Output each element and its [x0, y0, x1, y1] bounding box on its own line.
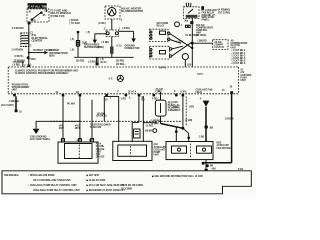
pin 30 connector (black) — [28, 22, 31, 25]
svg-text:(.5 BK): (.5 BK) — [102, 42, 110, 44]
label power distribution box — [49, 48, 68, 57]
svg-text:(.5 BK): (.5 BK) — [88, 61, 96, 63]
svg-text:UNIT: UNIT — [12, 90, 18, 92]
boundary stub line — [185, 96, 187, 126]
splice circle — [182, 54, 188, 68]
svg-text:8 1B: 8 1B — [238, 169, 243, 171]
label M22 fan motor — [217, 143, 231, 150]
svg-text:S202: S202 — [30, 59, 36, 61]
label A31 right of box2 — [154, 143, 167, 156]
wire tick boxes above box1 — [62, 139, 94, 142]
svg-text:1 BN: 1 BN — [189, 107, 195, 109]
compressor box — [213, 40, 228, 50]
connector box B (dashed) — [150, 46, 172, 59]
blower resistor — [155, 100, 166, 116]
svg-text:(1 RD): (1 RD) — [97, 47, 104, 49]
svg-text:A31: A31 — [154, 143, 159, 146]
diagonal wires — [170, 34, 194, 56]
coolant fan feed arrow — [196, 89, 214, 142]
svg-text:PANEL: PANEL — [202, 18, 210, 21]
wire down from connector — [97, 37, 123, 58]
svg-text:BLOWER MOTOR: BLOWER MOTOR — [121, 9, 143, 13]
svg-text:(A/C CONT): (A/C CONT) — [1, 104, 14, 107]
svg-text:○ SPACE BELOW MARK: ○ SPACE BELOW MARK — [28, 174, 55, 177]
svg-text:A/C: A/C — [240, 71, 244, 74]
svg-text:COOLANT FAN: COOLANT FAN — [196, 89, 213, 92]
svg-text:GAUGE: GAUGE — [96, 156, 105, 159]
wire module to box1 (x92) — [91, 100, 93, 142]
svg-text:RD M BK OR CONN: RD M BK OR CONN — [121, 185, 143, 187]
svg-text:AVAILABLE PUMP RELAY CONTROL U: AVAILABLE PUMP RELAY CONTROL UNIT — [33, 189, 80, 192]
branch wire to right with arrow — [29, 50, 53, 54]
svg-text:CLIMATE CONTROL PUSHBUTTON PRO: CLIMATE CONTROL PUSHBUTTON PROGRAMMER UN… — [15, 70, 79, 73]
wire module to box2 (x143.3) — [143, 96, 157, 141]
terminal square — [70, 19, 81, 33]
svg-text:▪ 1 CKT BK-4: ▪ 1 CKT BK-4 — [231, 52, 246, 55]
svg-text:▶ M 9.2 AIR SHUT AIDE VIEW CKT: ▶ M 9.2 AIR SHUT AIDE VIEW CKT — [86, 184, 126, 187]
label ground connection — [125, 46, 140, 51]
label right of box — [231, 39, 248, 49]
wire module to resistor (x160.5) — [160, 92, 162, 100]
svg-text:S 2.5: S 2.5 — [116, 46, 122, 48]
module interior labels — [15, 70, 79, 76]
bus wire — [74, 57, 133, 66]
svg-text:(.5): (.5) — [71, 49, 75, 51]
labels above box1 — [59, 125, 65, 131]
relay K1 (dashed) — [183, 7, 199, 19]
branch to compressor box — [191, 41, 213, 45]
svg-text:MOT: MOT — [75, 128, 81, 130]
svg-text:(TO S RD): (TO S RD) — [218, 11, 230, 15]
box2 aux pump (double box) — [113, 141, 152, 160]
svg-text:○ AVAILABLE PUMP RELAY CONTROL: ○ AVAILABLE PUMP RELAY CONTROL UNIT — [28, 184, 77, 187]
splice S300 — [145, 129, 157, 133]
svg-text:(30 RD): (30 RD) — [116, 60, 124, 62]
A/C control module (large dashed box) — [8, 67, 238, 94]
svg-text:1 BK: 1 BK — [199, 136, 205, 138]
pin C1 — [25, 32, 34, 47]
svg-text:VAC: VAC — [75, 125, 80, 128]
dashed boundary line — [50, 120, 182, 122]
label A1 control unit (right of corner) — [240, 69, 252, 82]
label F1 fuse and relay module — [51, 9, 72, 18]
svg-text:PROGRAMMER: PROGRAMMER — [12, 86, 30, 89]
legend col1 — [28, 174, 80, 192]
svg-text:(.5 BK): (.5 BK) — [98, 23, 106, 25]
circuit list — [231, 50, 246, 65]
label TO BLOWER — [176, 35, 200, 44]
svg-text:REFERENCE: REFERENCE — [4, 175, 19, 177]
legend title — [4, 175, 19, 177]
svg-text:▶ DIAGRAMS AT M INT CONN CKT: ▶ DIAGRAMS AT M INT CONN CKT — [86, 189, 126, 192]
svg-text:MOT: MOT — [59, 128, 65, 130]
relay pin ticks — [186, 3, 204, 10]
svg-text:(.5): (.5) — [71, 39, 75, 41]
svg-text:(.5): (.5) — [87, 32, 91, 34]
svg-text:PU WH: PU WH — [67, 103, 75, 105]
svg-text:(30 BK): (30 BK) — [145, 131, 153, 133]
legend box — [2, 171, 251, 194]
svg-text:(LT SIDE): (LT SIDE) — [196, 35, 207, 37]
label N19 control unit — [196, 24, 213, 37]
module top pin black — [27, 65, 30, 68]
wire module down (x182.9) — [181, 96, 194, 141]
svg-text:(30 RD): (30 RD) — [76, 60, 84, 62]
wire label 2.5 RD/WH — [12, 28, 24, 30]
svg-text:S PU: S PU — [197, 74, 203, 76]
svg-text:( TO RAD: ( TO RAD — [70, 22, 81, 25]
star circle symbol — [108, 75, 123, 81]
in-line connector box — [134, 129, 140, 138]
svg-text:(FUSE F10): (FUSE F10) — [51, 14, 65, 18]
wire module down (x176.3) — [173, 102, 179, 141]
stub wire .75 RD/GN — [13, 61, 25, 67]
right wire to ground connector — [119, 28, 136, 43]
svg-text:ASSEMBLY: ASSEMBLY — [168, 109, 181, 112]
svg-text:.5 BK/WH: .5 BK/WH — [9, 101, 20, 103]
svg-text:S261: S261 — [82, 43, 88, 45]
svg-text:CLIMATE CONTROL PROGRAMMER ASS: CLIMATE CONTROL PROGRAMMER ASSEMBLY — [15, 72, 69, 75]
legend col2 — [86, 174, 126, 192]
label S25 connector — [157, 22, 184, 28]
svg-text:A 30A: A 30A — [180, 90, 187, 93]
svg-text:UNIT: UNIT — [240, 80, 246, 82]
legend col3 — [151, 175, 203, 178]
splice S202 — [13, 52, 36, 67]
svg-text:LEFT KICK PANEL: LEFT KICK PANEL — [30, 138, 51, 141]
label .5 BK — [98, 23, 106, 25]
svg-text:(30 BK): (30 BK) — [97, 113, 105, 115]
label resistor — [168, 102, 181, 112]
blower motor M3 (dashed box) — [105, 6, 120, 19]
left wire to connector — [1, 96, 22, 113]
svg-text:.5 RD/YL: .5 RD/YL — [14, 56, 24, 58]
svg-text:AUXILIARY: AUXILIARY — [217, 144, 230, 147]
label top right — [218, 8, 230, 15]
right side thick wire down — [202, 94, 234, 163]
svg-text:30 A4: 30 A4 — [100, 61, 107, 64]
bracket loop at module bottom — [97, 96, 119, 121]
fuse strip component — [21, 33, 29, 47]
svg-text:( RADIO: ( RADIO — [70, 19, 79, 22]
svg-text:A-C: A-C — [108, 78, 112, 81]
svg-text:▪ 2 CKT BK-6: ▪ 2 CKT BK-6 — [231, 63, 246, 65]
bus drop connector to module — [96, 57, 108, 65]
fuse box F1 (dashed) — [27, 9, 49, 22]
svg-text:CLUTCH: CLUTCH — [214, 47, 224, 49]
svg-text:4 BK: 4 BK — [173, 106, 179, 109]
svg-text:(30 RD) ▪: (30 RD) ▪ — [116, 64, 126, 66]
in-line resistor on wire — [71, 33, 89, 57]
wire from F1 down — [28, 24, 30, 52]
svg-text:(.5 RD): (.5 RD) — [13, 64, 21, 66]
svg-text:HEATER BLOWER: HEATER BLOWER — [90, 124, 111, 127]
svg-text:(.5 BK): (.5 BK) — [122, 28, 130, 30]
wire module to box2 (x118.7) — [110, 96, 126, 141]
wire module to box1 (x79.9) — [79, 96, 81, 142]
svg-text:FAN MOTOR: FAN MOTOR — [217, 147, 231, 150]
label electrical center — [32, 33, 49, 42]
svg-text:1 BR/RD: 1 BR/RD — [151, 120, 161, 122]
svg-text:BK: BK — [210, 128, 214, 130]
power feed header HOT AT ALL TIMES — [24, 3, 50, 8]
box1 vacuum unit (double box) — [58, 140, 98, 163]
label radio noise suppressor — [84, 44, 100, 50]
svg-text:CENTER: CENTER — [32, 38, 43, 42]
interior small labels — [159, 67, 203, 76]
svg-text:◄ 1 PU: ◄ 1 PU — [151, 123, 159, 126]
wire relay down — [184, 19, 193, 68]
svg-text:2.5 RD/GN: 2.5 RD/GN — [12, 49, 24, 51]
svg-text:AUXILIARY: AUXILIARY — [154, 146, 167, 149]
left wire to suppressor ground — [87, 32, 107, 44]
wire label 2.5 RD/GN — [12, 49, 24, 51]
svg-text:1 BK/RD: 1 BK/RD — [197, 41, 207, 43]
svg-text:PUSH SW: PUSH SW — [90, 127, 102, 129]
svg-text:(15): (15) — [187, 64, 191, 66]
svg-text:▶ SEE GROUND DISTRIBUTION CELL: ▶ SEE GROUND DISTRIBUTION CELL 14 FOR — [151, 175, 203, 178]
svg-text:1 RD/BK: 1 RD/BK — [225, 119, 235, 121]
svg-text:1 RD: 1 RD — [121, 98, 127, 100]
svg-text:BY CONN: BY CONN — [121, 188, 132, 190]
svg-text:UNIT: UNIT — [154, 155, 160, 157]
connector C2 (dashed with circles) — [104, 29, 121, 37]
svg-text:▶ AIR TEST: ▶ AIR TEST — [86, 174, 101, 177]
svg-text:GR A CONTROL AND STEER UNIT: GR A CONTROL AND STEER UNIT — [33, 179, 71, 182]
label right of box1 — [96, 143, 105, 159]
svg-text:A6 PO: A6 PO — [159, 67, 166, 70]
svg-text:VAC: VAC — [59, 125, 64, 128]
fuse switch contact — [28, 9, 47, 22]
label M3 blower motor — [121, 6, 143, 13]
svg-text:A7-A: A7-A — [96, 143, 102, 146]
svg-text:GAUGE: GAUGE — [96, 148, 105, 151]
label K1 relay — [202, 9, 218, 21]
svg-text:BK: BK — [210, 165, 214, 167]
svg-text:2.5 RD/WH: 2.5 RD/WH — [12, 28, 24, 30]
ground line and symbol G205 — [30, 121, 80, 141]
svg-text:HOT AT ALL TIMES: HOT AT ALL TIMES — [24, 4, 50, 8]
svg-text:M: M — [158, 91, 160, 93]
svg-text:RELAY: RELAY — [157, 25, 165, 28]
junction dots under box3 — [202, 160, 217, 171]
box3 auxiliary fan motor — [166, 136, 213, 159]
wire below resistor + diagonal — [151, 116, 183, 128]
pin 1 — [121, 20, 123, 22]
svg-text:30 AT A: 30 AT A — [128, 91, 137, 94]
svg-text:A9 A/C: A9 A/C — [214, 41, 222, 44]
svg-text:COOLANT: COOLANT — [154, 148, 166, 151]
svg-text:▪ BK: ▪ BK — [211, 168, 216, 170]
module bottom pins — [13, 94, 16, 97]
svg-text:CONNECTOR: CONNECTOR — [125, 48, 140, 50]
wire module to box2 with jog (pin x138.9) — [129, 96, 145, 141]
wire motor down — [111, 19, 113, 30]
svg-text:FEED: FEED — [196, 92, 203, 94]
connector box A (dashed) — [150, 29, 170, 41]
svg-text:(30 BK S): (30 BK S) — [96, 115, 107, 117]
svg-text:▶ ALSO BY PGM: ▶ ALSO BY PGM — [86, 179, 106, 182]
wire module to box1 (x63) — [63, 96, 75, 142]
pin 15 label — [187, 64, 191, 66]
svg-text:(1 RD): (1 RD) — [146, 125, 153, 127]
svg-text:BOX: BOX — [49, 53, 55, 57]
corner mark — [238, 169, 243, 171]
svg-text:1 BK: 1 BK — [173, 102, 179, 104]
